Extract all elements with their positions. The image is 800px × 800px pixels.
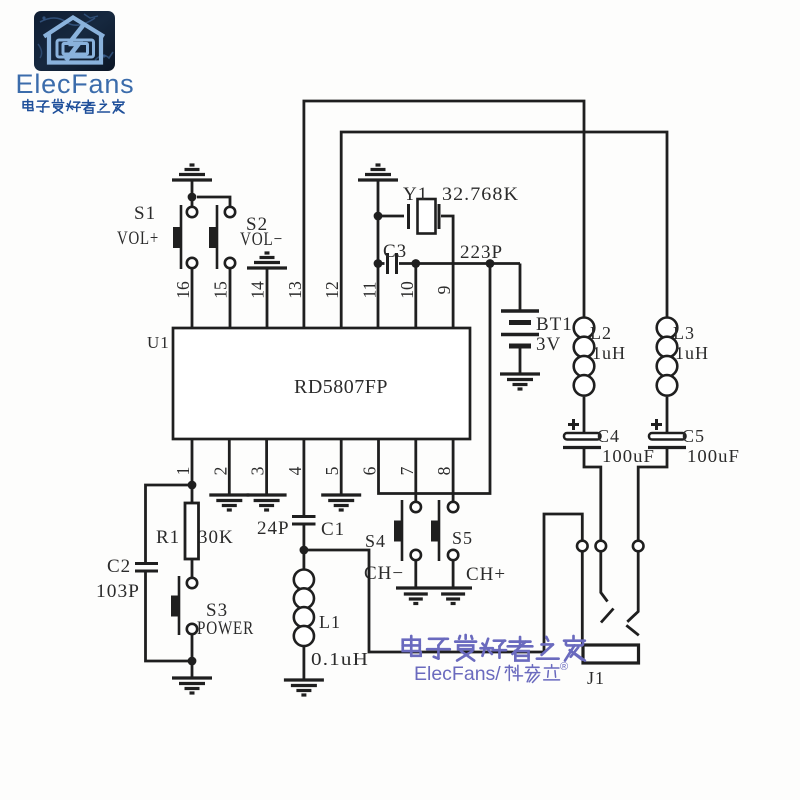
wire L3 to C5 [666,397,669,432]
label L2 value 1uH [592,343,626,363]
inductor L1 [294,570,314,647]
inductor L3 [657,318,678,396]
svg-text:4: 4 [285,466,305,475]
logo badge background [34,11,115,71]
svg-text:C2: C2 [107,556,131,577]
pin 14 label [248,281,268,299]
capacitor C1 24P [292,517,316,525]
switch S4 [394,500,421,561]
svg-text:U1: U1 [147,333,170,352]
label C4 [597,426,620,446]
label S4 [365,531,386,551]
wire S1 to pin16 [191,268,194,328]
svg-text:ElecFans/: ElecFans/ [414,663,501,685]
svg-text:5: 5 [322,466,342,475]
svg-text:C3: C3 [383,241,407,262]
svg-text:1uH: 1uH [675,343,709,363]
svg-text:3V: 3V [536,334,561,355]
switch S3 POWER [171,576,197,635]
svg-text:1: 1 [173,467,193,476]
label L1 [319,612,341,632]
ground at pin14 [247,253,287,328]
capacitor C2 [135,564,158,572]
ground at pin5 [321,495,361,510]
pin 13 label [285,281,305,299]
wire pin13 to L2 top (net A) [304,101,584,328]
jack J1 tip spring [601,552,614,623]
logo text 电子爱好者之家 [23,99,124,113]
svg-text:L1: L1 [319,612,341,632]
wire S2 to pin15 [229,268,232,328]
wire C5 to jack ring [638,448,667,541]
svg-text:24P: 24P [257,518,290,539]
jack J1 sleeve contact [577,541,588,552]
wire S5 to ground [452,560,455,588]
svg-text:ElecFans: ElecFans [16,69,135,99]
svg-text:J1: J1 [587,668,605,688]
label C5 [682,426,705,446]
wire S3 to bottom junction [191,634,194,661]
label Y1 [403,184,428,205]
capacitor C3 [378,253,416,274]
ground below S4 [404,594,428,604]
wire pin11 up to C3 node [377,264,380,329]
svg-text:BT1: BT1 [536,314,573,335]
wire battery drop [519,264,522,312]
svg-text:100uF: 100uF [602,446,655,466]
node S3 bottom junction [188,657,197,666]
pin 4 label [285,466,305,475]
svg-text:L3: L3 [673,323,695,343]
label 32.768K [442,184,519,205]
svg-text:30K: 30K [198,527,234,548]
capacitor C5 plus sign [651,419,662,430]
label R1 [156,527,180,548]
svg-text:1uH: 1uH [592,343,626,363]
pin 11 label [360,282,380,299]
pin 1 label [173,467,193,476]
label C3 [383,241,407,262]
jack J1 ring spring [626,552,639,636]
svg-text:10: 10 [397,281,417,299]
pin 9 label [434,285,454,294]
svg-text:RD5807FP: RD5807FP [294,377,388,398]
pin 5 label [322,466,342,475]
ground below S3 [172,678,212,693]
node crystal left junction [374,212,383,221]
label CH- [364,563,404,584]
node Vcc junction [486,259,495,268]
label VOL- [240,229,283,250]
svg-text:9: 9 [434,285,454,294]
pin 6 label [360,466,380,475]
pin 2 label [210,467,230,476]
pin 12 label [322,281,342,299]
svg-text:7: 7 [397,466,417,475]
jack J1 barrel [583,645,639,663]
pin 8 label [434,466,454,475]
wire pin3 to ground [265,439,268,495]
svg-text:8: 8 [434,466,454,475]
wire sleeve to barrel [581,551,584,645]
wire pin1 down [191,439,194,485]
wire L2 to C4 [583,397,586,432]
svg-text:VOL+: VOL+ [117,228,159,249]
svg-text:3: 3 [248,466,268,475]
ground below L1 [284,680,324,695]
node S1/S2 junction [188,193,197,202]
ground below S5 [441,594,465,604]
label C1 [321,519,345,540]
label 30K [198,527,234,548]
ground above Y1 [358,165,398,216]
ground at pin3 [247,495,287,510]
crystal Y1 [378,199,453,328]
wire C1 to L1 junction [302,524,305,550]
label L3 value 1uH [675,343,709,363]
svg-text:S5: S5 [452,528,473,548]
wire junction to S1 [191,197,194,207]
logo house icon [44,18,104,63]
label U1 [147,333,170,352]
label C5 value 100uF [687,446,740,466]
wire R1 to S3 [191,559,194,578]
label RD5807FP [294,377,388,398]
capacitor C5 [648,433,686,448]
label L2 [590,323,612,343]
label S3 [206,600,228,621]
capacitor C4 [563,433,601,448]
jack J1 tip contact [596,541,607,552]
svg-text:0.1uH: 0.1uH [311,649,369,669]
ground below S4 S5 shared bar [396,586,472,589]
label 223P [460,242,503,263]
ground above S1 [172,165,212,197]
label L3 [673,323,695,343]
label BT1 [536,314,573,335]
inductor L2 [574,318,595,396]
switch S2 [209,205,235,269]
watermark text ElecFans/科彦立 [414,661,568,685]
svg-text:11: 11 [360,282,380,299]
wire L1 to ground [302,647,305,680]
wire Vcc node down to pin6 [379,264,491,494]
svg-text:VOL−: VOL− [240,229,283,250]
wire pin7 down [414,439,417,502]
jack J1 ring contact [633,541,644,552]
label C4 value 100uF [602,446,655,466]
node antenna junction [300,546,309,555]
capacitor C4 plus sign [568,419,579,430]
wire junction to C2 branch [146,485,193,562]
wire pin10 up to net [414,264,417,329]
wire pin2 to ground [228,439,231,495]
pin 16 label [173,281,193,299]
node C3 left junction [374,259,383,268]
ground at pin2 [209,495,249,510]
wire junction to L1 [302,550,305,570]
label CH+ [466,564,506,585]
wire pin5 to ground [340,439,343,495]
pin 15 label [210,281,230,299]
label J1 [587,668,605,688]
svg-text:32.768K: 32.768K [442,184,519,205]
switch S5 [431,500,458,561]
battery BT1 [501,311,539,374]
wire pin8 down [452,439,455,502]
svg-text:103P: 103P [96,581,140,602]
svg-text:223P: 223P [460,242,503,263]
svg-text:S4: S4 [365,531,386,551]
svg-text:14: 14 [248,281,268,299]
svg-text:12: 12 [322,281,342,299]
logo text ElecFans [16,69,135,99]
switch S1 [173,205,197,269]
svg-text:C5: C5 [682,426,705,446]
label 0.1uH [311,649,369,669]
wire junction to ground [191,661,194,678]
svg-text:Y1: Y1 [403,184,428,205]
wire C4 to jack tip [584,448,601,541]
wire junction to S2 [197,197,230,207]
node pin10 junction [411,259,420,268]
label C2 [107,556,131,577]
svg-text:6: 6 [360,466,380,475]
label 3V [536,334,561,355]
wire C3 node to battery branch [416,262,520,265]
svg-text:15: 15 [210,281,230,299]
pin 10 label [397,281,417,299]
svg-text:S1: S1 [134,203,156,224]
svg-text:POWER: POWER [197,618,254,639]
label 24P [257,518,290,539]
label S5 [452,528,473,548]
pin 3 label [248,466,268,475]
ground below BT1 [500,374,540,389]
watermark text 电子爱好者之家 [403,635,585,661]
svg-text:2: 2 [210,467,230,476]
label VOL+ [117,228,159,249]
wire junction down to C3 node [377,216,380,264]
wire pin12 to L3 top (net B) [341,132,667,328]
label 103P [96,581,140,602]
svg-text:R1: R1 [156,527,180,548]
op-amp U1 RD5807FP body [173,328,470,439]
label S2 [246,214,268,235]
node pin1 junction [188,481,197,490]
resistor R1 [185,503,199,559]
pin 7 label [397,466,417,475]
svg-text:C4: C4 [597,426,620,446]
wire antenna node to jack [304,514,582,652]
svg-text:L2: L2 [590,323,612,343]
wire junction to R1 [191,485,194,503]
wire S4 to ground [414,560,417,588]
label S1 [134,203,156,224]
svg-text:®: ® [560,661,568,673]
svg-text:16: 16 [173,281,193,299]
wire pin4 down [302,439,305,516]
svg-text:13: 13 [285,281,305,299]
svg-text:C1: C1 [321,519,345,540]
svg-text:100uF: 100uF [687,446,740,466]
label POWER [197,618,254,639]
svg-text:CH+: CH+ [466,564,506,585]
wire C2 to bottom junction [146,572,193,661]
